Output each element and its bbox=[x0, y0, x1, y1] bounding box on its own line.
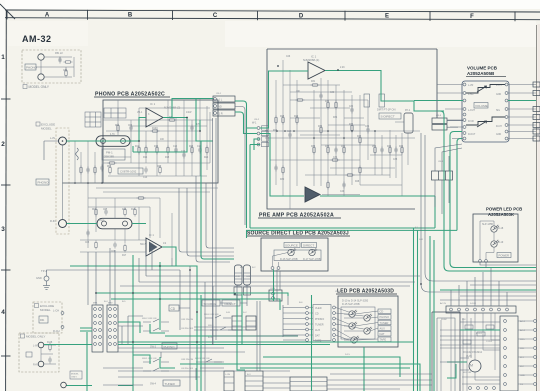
wire: source pcb pads down bbox=[277, 270, 280, 301]
green wire: preamp input riser bbox=[260, 71, 308, 128]
op-amp IC4 (bottom-left) bbox=[146, 233, 162, 256]
svg-text:SW-8: SW-8 bbox=[208, 325, 214, 327]
wire: long mid horizontals bbox=[60, 270, 420, 286]
green wire: bottom bus row 2 bbox=[165, 335, 298, 337]
svg-text:TUNER: TUNER bbox=[315, 324, 324, 327]
svg-text:MODEL ONLY: MODEL ONLY bbox=[29, 85, 50, 89]
svg-text:DAT: DAT bbox=[380, 332, 385, 336]
relay RY-1 bbox=[404, 113, 413, 133]
volume internal link wires bbox=[466, 85, 505, 126]
terminal strip row bbox=[446, 306, 516, 313]
svg-text:C30: C30 bbox=[330, 92, 335, 94]
svg-text:POWER LED PCB: POWER LED PCB bbox=[486, 207, 522, 212]
svg-text:POWER: POWER bbox=[499, 254, 510, 258]
svg-text:DIRT PT-1P ON: DIRT PT-1P ON bbox=[377, 108, 396, 112]
bottom center connector block bbox=[245, 371, 263, 391]
dashed jack panel column bbox=[56, 128, 69, 234]
wire: input filter verticals bbox=[75, 141, 102, 186]
resistor R0a bbox=[65, 69, 67, 78]
CN-5 inner pins bbox=[235, 273, 251, 279]
volume right pads bbox=[505, 83, 508, 140]
connector CN-6 below source pcb bbox=[269, 290, 282, 301]
wire: bus corner right 1 bbox=[425, 273, 536, 281]
led pcb input pads column bbox=[306, 306, 309, 341]
svg-text:GND: GND bbox=[216, 105, 222, 109]
capacitor C102 bbox=[100, 165, 104, 172]
edge connector boxes right bbox=[533, 82, 540, 141]
wire: switch wiring bbox=[118, 303, 247, 326]
wire: corners from lower stage into bus bbox=[139, 247, 172, 282]
green wire: riser from preamp connector bbox=[250, 139, 260, 228]
svg-text:R31: R31 bbox=[311, 81, 316, 83]
svg-text:F: F bbox=[470, 14, 474, 20]
svg-text:L-IN: L-IN bbox=[33, 345, 38, 348]
green wire: CN-1 to preamp CN-2 bbox=[235, 101, 257, 228]
svg-text:D-15: D-15 bbox=[345, 354, 351, 356]
power pcb internal wires bbox=[480, 221, 494, 259]
svg-text:L-CH: L-CH bbox=[496, 85, 502, 87]
svg-text:B: B bbox=[128, 13, 133, 19]
wire: CN-1 gnd down bbox=[235, 107, 245, 226]
volume pcb outline bbox=[462, 81, 509, 142]
wire: tp-2 link bbox=[47, 270, 61, 276]
parts in model-only box 2 bbox=[49, 343, 51, 352]
PHONO switch label bbox=[162, 343, 177, 349]
svg-text:SW+: SW+ bbox=[520, 339, 526, 341]
svg-text:SW-2 OFF ON: SW-2 OFF ON bbox=[142, 318, 157, 320]
svg-text:C51: C51 bbox=[63, 69, 68, 72]
svg-text:R-201: R-201 bbox=[476, 333, 483, 335]
svg-text:SW-1 OFF ON: SW-1 OFF ON bbox=[142, 358, 157, 360]
svg-text:R51 22: R51 22 bbox=[55, 52, 63, 55]
svg-text:B-26: B-26 bbox=[208, 337, 213, 339]
led inner sub-box bbox=[341, 307, 375, 339]
led pcb right label boxes bbox=[378, 309, 391, 342]
lower phono wiring bbox=[80, 186, 218, 258]
preamp right connector CN-4 (horizontal strip) bbox=[432, 171, 453, 180]
jack J3 phono L bbox=[59, 137, 67, 145]
wire: bottom horizontals bbox=[118, 348, 245, 352]
source direct pads bbox=[271, 267, 274, 270]
strip right pads column bbox=[333, 306, 336, 341]
green wire: IC1 feedback loop bbox=[133, 118, 187, 153]
wire: bottom band horizontals bbox=[118, 368, 432, 374]
wire: preamp to volume rows bbox=[437, 95, 463, 127]
wires in source pcb bbox=[273, 253, 288, 267]
svg-text:W-1: W-1 bbox=[252, 122, 257, 125]
svg-text:R36: R36 bbox=[318, 126, 323, 128]
svg-text:R34: R34 bbox=[333, 117, 338, 119]
jumper table box bbox=[85, 112, 101, 127]
wire: right column exits bbox=[518, 321, 533, 384]
svg-text:4: 4 bbox=[1, 309, 5, 316]
green wire: second horizontal y232 bbox=[250, 196, 435, 228]
green wire: switch weaves bbox=[118, 322, 175, 368]
svg-text:PRE AMP PCB A2052A502A: PRE AMP PCB A2052A502A bbox=[259, 213, 334, 219]
svg-text:CN-4: CN-4 bbox=[438, 161, 444, 163]
svg-text:AM-32: AM-32 bbox=[22, 34, 52, 44]
labels cn5/cn6 bbox=[234, 276, 276, 290]
LED D-11 bbox=[364, 314, 372, 321]
green wire: bottom bus row 1 bbox=[44, 342, 413, 345]
svg-text:C32: C32 bbox=[349, 106, 354, 108]
jack J2 bbox=[38, 74, 44, 80]
wire: left risers to bottom grid bbox=[88, 248, 115, 305]
power pcb pads bbox=[479, 260, 482, 263]
wire: long vertical pair right of preamp bbox=[421, 133, 425, 284]
pad strip B bbox=[107, 305, 118, 352]
svg-text:R48: R48 bbox=[355, 181, 360, 183]
S-DIRECT label box bbox=[379, 113, 401, 119]
PM-1 value box 2SK389 bbox=[102, 149, 125, 160]
green wire: volume feed row bbox=[414, 100, 536, 102]
led pcb outline bbox=[338, 296, 398, 347]
svg-text:10K: 10K bbox=[296, 91, 301, 93]
green wire: source pcb down to cn-6 bbox=[273, 270, 275, 301]
svg-text:R18: R18 bbox=[165, 157, 170, 159]
trim box T-1 bbox=[364, 94, 370, 107]
svg-text:L-SG: L-SG bbox=[468, 94, 474, 96]
svg-text:ON PH-OFF: ON PH-OFF bbox=[181, 328, 194, 330]
svg-text:L-VR: L-VR bbox=[468, 85, 474, 87]
svg-text:2.2K: 2.2K bbox=[340, 67, 345, 69]
svg-text:MOTOR: MOTOR bbox=[463, 372, 472, 374]
model-only footnote bbox=[23, 85, 27, 89]
jumper table 2 bbox=[104, 108, 126, 118]
svg-text:S-DIRECT: S-DIRECT bbox=[381, 115, 395, 119]
svg-text:DIRECT: DIRECT bbox=[225, 302, 236, 306]
svg-text:MP1: MP1 bbox=[93, 303, 98, 305]
svg-text:3: 3 bbox=[1, 226, 5, 233]
svg-text:C: C bbox=[213, 13, 218, 19]
bottom block near LED pcb bbox=[290, 377, 327, 391]
svg-text:R-OUT: R-OUT bbox=[468, 134, 476, 136]
wire: right block horizontals bbox=[440, 322, 500, 370]
svg-text:R08: R08 bbox=[107, 166, 112, 168]
svg-text:L-CH: L-CH bbox=[225, 374, 231, 376]
VOLUME label box bbox=[474, 103, 488, 109]
jack J5 bbox=[38, 342, 44, 348]
green wire: preamp output bottom bbox=[320, 195, 435, 197]
svg-text:R20: R20 bbox=[157, 166, 162, 168]
svg-text:AC-1: AC-1 bbox=[520, 320, 526, 323]
svg-text:C34: C34 bbox=[333, 157, 338, 159]
DIRECT label box bbox=[222, 300, 240, 306]
svg-text:R38: R38 bbox=[325, 146, 330, 148]
LED D-17 bbox=[309, 248, 317, 255]
svg-text:R09: R09 bbox=[92, 209, 97, 211]
led wires bbox=[344, 311, 378, 340]
wire: cn5 risers bbox=[237, 285, 247, 306]
svg-text:C-205: C-205 bbox=[486, 341, 493, 343]
svg-text:MODEL: MODEL bbox=[71, 374, 80, 376]
switch labels sw2 bbox=[142, 314, 219, 320]
SOURCE label box bbox=[202, 300, 220, 306]
dual FET PM-2 (stadium) bbox=[97, 218, 132, 229]
svg-text:NJM2068-(1): NJM2068-(1) bbox=[303, 58, 319, 62]
trim box T-2 bbox=[379, 94, 385, 107]
volume pot arrow R bbox=[477, 121, 486, 127]
svg-text:R29: R29 bbox=[294, 116, 299, 118]
svg-text:OFF PH-ON: OFF PH-ON bbox=[181, 319, 193, 321]
wire: bus rows right bbox=[440, 285, 536, 300]
LED D-16 bbox=[288, 248, 296, 255]
switch SW-2 (cd) bbox=[143, 315, 236, 331]
svg-text:C12: C12 bbox=[173, 146, 178, 148]
connector CN-5 strip 2 bbox=[244, 265, 251, 285]
wire: bus corner right 2 bbox=[421, 284, 536, 292]
svg-text:S-DIR: S-DIR bbox=[470, 303, 476, 305]
svg-text:S-B: S-B bbox=[226, 312, 230, 314]
svg-text:AC-2: AC-2 bbox=[520, 329, 526, 332]
resistor R0b bbox=[64, 61, 73, 63]
svg-text:R17: R17 bbox=[122, 255, 127, 257]
svg-text:C05: C05 bbox=[85, 242, 90, 244]
svg-text:S-R: S-R bbox=[419, 239, 423, 241]
function switch outline bbox=[432, 312, 460, 391]
svg-text:R-IN: R-IN bbox=[50, 219, 55, 223]
svg-text:R22: R22 bbox=[189, 146, 194, 148]
volume left pads bbox=[463, 83, 466, 140]
svg-text:C07: C07 bbox=[103, 209, 108, 211]
jack J1 bbox=[38, 54, 44, 60]
wire: switch feed horizontals bbox=[194, 327, 298, 336]
connector CN-5 strip 1 bbox=[235, 265, 243, 285]
svg-text:AC IN: AC IN bbox=[440, 302, 446, 305]
PHONO label box (left) bbox=[36, 179, 49, 185]
wire: verticals mid bbox=[180, 266, 213, 391]
green wire: motor loop bbox=[447, 362, 467, 378]
pad row (right block bottom) bbox=[469, 387, 496, 390]
jack J4 phono R bbox=[59, 220, 67, 228]
svg-text:D-17 SLP-135B: D-17 SLP-135B bbox=[303, 258, 321, 261]
svg-text:ONLY: ONLY bbox=[71, 377, 77, 379]
source direct pcb outline bbox=[261, 238, 328, 271]
resistor boxes (right block) bbox=[463, 325, 494, 344]
connector B-2 box bbox=[246, 316, 256, 330]
green wire: phono R to lower stage bbox=[67, 223, 147, 225]
svg-text:CN-2: CN-2 bbox=[254, 119, 260, 121]
wire: jack panel vertical bbox=[62, 145, 64, 220]
green wire: mid horizontal bus 3 bbox=[111, 299, 280, 310]
svg-text:MODEL: MODEL bbox=[41, 127, 52, 131]
svg-text:A2052A505B: A2052A505B bbox=[467, 71, 495, 76]
edge pads column (far right) bbox=[534, 320, 537, 386]
wire: terminal strip drops bbox=[451, 268, 507, 306]
svg-text:R13: R13 bbox=[122, 209, 127, 211]
ground TP-2 bbox=[43, 276, 50, 290]
svg-text:MODEL: MODEL bbox=[40, 308, 51, 312]
resistor bank phono bbox=[108, 119, 209, 175]
volume row wires to page edge bbox=[437, 85, 536, 139]
svg-text:GND: GND bbox=[520, 375, 525, 377]
svg-text:R12: R12 bbox=[135, 146, 140, 148]
svg-text:M: M bbox=[470, 364, 473, 368]
wire: feed left of jack J3 bbox=[44, 141, 59, 160]
LED D-18 bbox=[491, 225, 499, 232]
wire: preamp CN-4 to volume bottom pads bbox=[435, 144, 462, 214]
wire: long vertical pair mid bbox=[213, 118, 217, 345]
junction dots (ground rail) bbox=[62, 140, 103, 184]
green wire: preamp top run to s-direct bbox=[325, 71, 444, 112]
green wire: phono out to CN-1 bbox=[172, 99, 213, 142]
svg-text:C28: C28 bbox=[287, 131, 292, 133]
svg-text:C36: C36 bbox=[365, 126, 370, 128]
wire: ground rail left of phono bbox=[63, 182, 104, 184]
green wire: sweep from s-direct to volume return bbox=[440, 111, 536, 271]
wire: nested corner bundle (phono to bus) bbox=[179, 176, 234, 262]
dashed option box (model only) bbox=[22, 50, 81, 83]
CN-1 pin labels bbox=[216, 98, 223, 116]
svg-text:ON PH-OFF: ON PH-OFF bbox=[181, 368, 194, 370]
svg-text:R-VR: R-VR bbox=[468, 121, 474, 123]
lower component cluster bbox=[86, 197, 145, 253]
exclude-model dashed box bbox=[33, 302, 62, 333]
svg-text:R32: R32 bbox=[325, 101, 330, 103]
svg-text:R28: R28 bbox=[280, 116, 285, 118]
motor area wires bbox=[440, 313, 500, 391]
value labels (switch area / misc) bbox=[104, 93, 493, 374]
svg-text:R33: R33 bbox=[311, 146, 316, 148]
svg-text:A: A bbox=[45, 12, 50, 18]
svg-text:L-CH: L-CH bbox=[53, 309, 59, 313]
green wire: bottom-left input bbox=[66, 332, 133, 391]
EXCLUDE MODEL label bbox=[36, 122, 40, 126]
CD switch label bbox=[169, 305, 179, 311]
svg-text:R61: R61 bbox=[40, 319, 45, 322]
coil L-101 bbox=[76, 148, 79, 160]
svg-text:2SK389: 2SK389 bbox=[104, 155, 114, 159]
svg-text:R50: R50 bbox=[372, 146, 377, 148]
CN-1 pads bbox=[214, 98, 217, 115]
LED D-13 bbox=[364, 327, 372, 334]
svg-text:SW-4: SW-4 bbox=[150, 383, 157, 386]
input label strip bbox=[313, 305, 331, 341]
svg-text:R44: R44 bbox=[387, 146, 392, 148]
volume pot arrow L bbox=[477, 86, 486, 92]
svg-text:VOLUME PCB: VOLUME PCB bbox=[467, 66, 498, 71]
svg-text:VLED: VLED bbox=[315, 307, 322, 310]
resistor R101 bbox=[80, 166, 82, 175]
preamp internal wires bbox=[265, 60, 420, 209]
svg-text:VR-1: VR-1 bbox=[137, 112, 143, 114]
svg-text:GND: GND bbox=[36, 276, 42, 280]
switch SW-1 (phono) bbox=[143, 359, 222, 371]
green wire: long horizontal y229 to source pcb bbox=[247, 139, 463, 239]
svg-text:C38: C38 bbox=[393, 159, 398, 161]
svg-text:D-15 SLP-135B: D-15 SLP-135B bbox=[342, 303, 360, 306]
svg-text:AUX: AUX bbox=[380, 326, 386, 330]
svg-text:PHONO: PHONO bbox=[315, 318, 324, 321]
svg-text:CX8TR-1092: CX8TR-1092 bbox=[120, 170, 137, 174]
svg-text:GND: GND bbox=[496, 134, 501, 136]
svg-text:VOLUME: VOLUME bbox=[475, 104, 488, 108]
svg-text:S-C: S-C bbox=[243, 312, 247, 314]
svg-text:RY-1: RY-1 bbox=[405, 109, 411, 112]
IC socket box CX8TR bbox=[118, 168, 143, 174]
green wire: riser stage vertical bbox=[159, 262, 161, 330]
B-1/B-2 pins bbox=[232, 321, 256, 326]
green wire: cn risers right of switches bbox=[237, 294, 245, 370]
green wire: LED pcb feeds down bbox=[312, 295, 365, 391]
PHONO input label box bbox=[25, 64, 36, 70]
svg-text:SLP-135B: SLP-135B bbox=[482, 223, 493, 226]
svg-text:DAT: DAT bbox=[315, 335, 320, 338]
preamp component cluster bbox=[274, 84, 403, 190]
svg-text:4.7K: 4.7K bbox=[110, 134, 115, 136]
svg-text:L-OUT: L-OUT bbox=[468, 110, 475, 112]
svg-text:SW-8 OFF ON: SW-8 OFF ON bbox=[204, 314, 219, 316]
svg-text:MP2: MP2 bbox=[108, 303, 113, 305]
svg-text:DIRECT: DIRECT bbox=[303, 244, 314, 248]
svg-text:SW-7: SW-7 bbox=[140, 244, 146, 246]
svg-text:CN-6: CN-6 bbox=[270, 288, 276, 290]
svg-text:VLED: VLED bbox=[335, 291, 341, 293]
svg-text:C06: C06 bbox=[128, 125, 133, 127]
svg-text:SIG: SIG bbox=[496, 110, 500, 112]
wire: led pcb strip feeds from left bbox=[283, 308, 305, 341]
green wire: switch column verticals bbox=[197, 295, 201, 391]
op-amp IC3 (preamp bottom, dark) bbox=[305, 187, 320, 202]
phono pcb outline bbox=[103, 100, 218, 183]
LED D-19 bbox=[491, 240, 499, 247]
labels bottom connectors bbox=[225, 374, 251, 376]
svg-text:D: D bbox=[299, 13, 304, 19]
resistor in exclude box bbox=[39, 316, 48, 323]
preamp left connector CN-2 pads bbox=[257, 127, 260, 146]
svg-text:PM-1: PM-1 bbox=[99, 220, 105, 222]
svg-text:R-IN: R-IN bbox=[33, 364, 38, 367]
SOURCE label box bbox=[284, 243, 300, 248]
svg-text:AUX: AUX bbox=[315, 329, 320, 332]
wire: sw area links bbox=[122, 316, 128, 344]
green wire: right long verticals bbox=[414, 228, 418, 391]
wire: power pcb pads down bbox=[480, 263, 536, 268]
value labels (lower stage) bbox=[85, 209, 167, 257]
CN-2 pin boxes bbox=[262, 126, 269, 147]
svg-text:C26: C26 bbox=[286, 56, 291, 58]
preamp right connector CN-3 bbox=[432, 118, 447, 130]
green wire: phono R secondary bbox=[199, 120, 201, 131]
green wire: bottom run 2 bbox=[263, 357, 400, 377]
green wire: phono L input bbox=[67, 140, 140, 142]
right side pad column bbox=[500, 316, 518, 391]
green wire: bottom-left vertical bbox=[132, 255, 134, 391]
svg-text:PHONO: PHONO bbox=[26, 66, 38, 70]
wires inside model-only box bbox=[36, 57, 74, 77]
wire: inner block verticals bbox=[440, 313, 500, 391]
green wire: right bottom feeds bbox=[440, 290, 536, 330]
svg-text:R35: R35 bbox=[349, 124, 354, 126]
svg-text:R-CH: R-CH bbox=[53, 329, 60, 333]
svg-text:TUNER: TUNER bbox=[165, 382, 176, 386]
svg-text:SOURCE DIRECT LED PCB A205: SOURCE DIRECT LED PCB A2052A503J bbox=[247, 231, 349, 237]
inner outline 2 bbox=[437, 318, 455, 391]
TUNER switch label bbox=[163, 380, 180, 386]
svg-text:CN-3: CN-3 bbox=[436, 115, 442, 117]
motor M1 bbox=[469, 360, 481, 372]
op-amp IC1 (phono) bbox=[146, 102, 180, 127]
green wire: pad strip feeds bbox=[80, 328, 92, 331]
svg-text:SOURCE: SOURCE bbox=[204, 302, 217, 306]
svg-text:C40: C40 bbox=[340, 191, 345, 193]
svg-text:E: E bbox=[385, 14, 389, 20]
svg-text:D-16 SLP-135B: D-16 SLP-135B bbox=[280, 258, 298, 261]
svg-text:C14: C14 bbox=[143, 177, 148, 179]
svg-text:CD: CD bbox=[171, 307, 176, 311]
svg-text:R16: R16 bbox=[154, 146, 159, 148]
svg-text:GND: GND bbox=[496, 94, 501, 96]
